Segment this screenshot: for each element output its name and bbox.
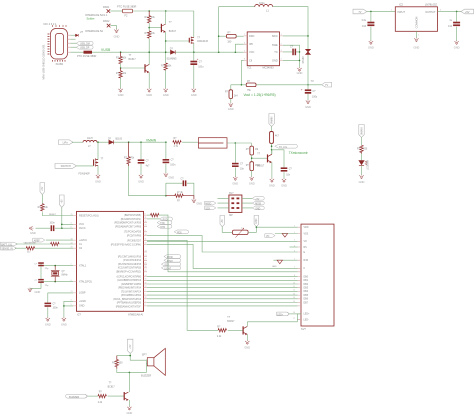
junction R8 [128,141,130,143]
resistor R4 [148,31,151,38]
wire GND pin [283,59,300,61]
svg-text:7V: 7V [325,83,328,87]
svg-text:GND: GND [30,231,36,235]
svg-text:+: + [301,87,303,91]
ground [28,288,32,292]
wire VBUS rail from USB to boost [71,51,244,53]
wire R7 to IC [236,35,244,37]
wire to T4 base [252,157,268,159]
collector wire up to speaker [128,372,130,392]
resistor horizontal on rail [173,141,181,144]
svg-text:31: 31 [145,225,147,227]
resistor box vertical [270,132,274,144]
100n cap at VMAIN [165,141,167,143]
svg-text:INTERFACE 5A: INTERFACE 5A [85,29,103,33]
fuse F2 box [123,9,133,13]
ground [192,88,196,92]
svg-text:(T1/U/VINT/UAPC4: (T1/U/VINT/UAPC4 [121,290,142,293]
ground [96,174,100,178]
svg-text:23: 23 [145,255,147,257]
junction 7V [307,84,309,86]
svg-text:26: 26 [145,266,147,268]
wire to pullup [41,195,43,204]
svg-text:11: 11 [145,217,147,219]
tag row 267.9 [161,266,180,270]
resistor R8 vertical [127,142,130,166]
svg-text:GND: GND [35,290,41,294]
svg-text:X10B2: X10B2 [56,63,64,66]
ground [139,174,143,178]
junction [165,10,167,12]
ground [270,178,274,182]
svg-text:DRC: DRC [249,34,255,38]
svg-text:RXD: RXD [163,219,168,221]
junction rail VCC [235,51,237,53]
7V net tag [322,82,332,87]
svg-text:+AVCC: +AVCC [79,239,87,242]
svg-text:PTC FUSE 380R: PTC FUSE 380R [77,54,97,58]
svg-text:+5V: +5V [42,186,44,191]
svg-text:SV?: SV? [229,193,234,195]
ground [306,100,310,104]
svg-text:GND: GND [414,46,420,50]
svg-text:s: s [241,228,242,230]
wire tube to divider [227,143,251,146]
resistor R7 box [226,34,236,38]
10n cap [234,143,236,177]
connector pin numbers [293,226,295,321]
wire pot right [248,227,256,233]
svg-text:S1040M5: S1040M5 [167,58,178,60]
svg-text:GND: GND [61,322,67,326]
svg-text:GND: GND [269,183,275,187]
wire row 235.6 to E pin [147,236,298,252]
net label USB_D- [77,42,94,46]
svg-text:GND: GND [45,322,51,326]
svg-text:3.3u: 3.3u [361,20,366,22]
+5V tag vertical [128,339,133,353]
junction divider [251,155,253,162]
svg-text:(PDDMDM/PCINT UKP26: (PDDMDM/PCINT UKP26 [114,223,142,225]
svg-text:CII: CII [249,58,253,62]
MCU box [77,211,144,311]
resistor 27.4k [166,194,194,199]
junction VUSB at R1 [120,51,122,53]
svg-text:GND: GND [127,411,133,415]
svg-text:(PPTBAMA/UU/SEPD6: (PPTBAMA/UU/SEPD6 [117,302,142,305]
svg-text:30: 30 [145,221,147,223]
speaker SP1 [147,348,165,375]
BUZZER tag [66,394,89,398]
mosfet drain/source wires [97,142,99,174]
bottom row wire [117,364,147,373]
svg-text:BC817: BC817 [108,386,116,388]
wire to resistor [361,137,363,145]
wire VUSB from USB pin [71,46,77,48]
cap 22p lower + gnd chain [40,266,42,279]
svg-text:BC817: BC817 [169,31,177,33]
svg-text:(ICP/CLKO/PCINT/PB0: (ICP/CLKO/PCINT/PB0 [117,277,142,279]
resistor [360,145,363,153]
svg-text:IC?: IC? [77,313,82,316]
wire diode to 7V node [307,55,309,85]
wire + resistor row 244 [16,243,73,245]
svg-text:BATT_LVL: BATT_LVL [1,243,13,246]
junction rail x165.7 [165,51,167,53]
svg-text:SCK: SCK [205,208,210,210]
svg-text:AVCC: AVCC [79,227,86,230]
junction [148,10,150,12]
svg-text:LED+: LED+ [304,314,311,316]
ground [62,317,66,321]
svg-text:XCC/UMT/CINT/AP1B: XCC/UMT/CINT/AP1B [118,267,142,270]
row1 resistor to long vertical [147,214,151,216]
svg-text:100u: 100u [312,96,318,98]
cap C4 [140,142,142,174]
svg-text:27: 27 [145,270,147,272]
svg-text:BC817: BC817 [227,321,235,323]
wire to diode [97,141,166,143]
svg-text:DB1: DB1 [304,280,309,282]
svg-text:MC34063: MC34063 [263,66,275,70]
svg-text:GND: GND [168,175,174,179]
pad X1 [107,9,111,13]
sensor tube [198,138,227,148]
svg-text:4: 4 [294,245,295,247]
wire CII to feedback [241,60,243,84]
svg-text:LIGHT: LIGHT [164,268,171,270]
earth triangle 2 row [274,259,298,261]
svg-text:(PBSDAMA/CINT MT/X*: (PBSDAMA/CINT MT/X* [116,305,141,308]
svg-text:1: 1 [145,290,146,292]
svg-text:GND: GND [228,107,234,111]
ground [192,199,196,203]
data bus rows [147,277,298,306]
svg-text:TXmicrocontr: TXmicrocontr [289,151,309,155]
earth triangle 1 [282,234,287,238]
LED+ tag [277,312,290,316]
svg-text:SCK: SCK [164,265,169,267]
IC2 78L05 box [395,7,437,32]
svg-text:OUTPUT: OUTPUT [425,11,436,14]
cap CT [292,49,294,56]
tag row 222.6 [157,221,172,225]
svg-text:N/C 4 3 2 1: N/C 4 3 2 1 [44,22,57,26]
wire to label row 2 [71,42,77,44]
svg-text:Vout = 1.25(1+R6/R5): Vout = 1.25(1+R6/R5) [244,93,276,97]
wire SWE to gnd bus [283,45,300,67]
svg-text:TC: TC [274,50,278,54]
connector pin stubs [298,227,302,320]
svg-text:11: 11 [145,239,147,241]
svg-text:15: 15 [145,279,147,281]
svg-text:SWITCH: SWITCH [61,164,71,168]
diode D1 on VBUS rail [171,50,176,54]
connector pin labels [304,227,311,322]
wire pad2 to gnd [110,26,116,30]
svg-text:GND: GND [244,345,250,349]
svg-text:(POCM/BKU/UPD4: (POCM/BKU/UPD4 [121,295,142,297]
long tag row 244 [0,242,17,246]
svg-text:2: 2 [294,226,295,228]
svg-text:+5V: +5V [255,199,260,201]
svg-text:GND: GND [281,183,287,187]
svg-text:12: 12 [145,243,147,245]
inductor L1 [255,4,273,6]
svg-text:5: 5 [294,259,295,261]
svg-text:MOSI: MOSI [255,204,261,206]
input cap [370,11,372,40]
GND tag vertical right [254,216,259,227]
svg-text:17: 17 [145,286,147,288]
svg-text:TX_LVL: TX_LVL [279,147,288,149]
svg-text:LED+: LED+ [277,314,283,316]
tag row 226.4 [157,225,172,229]
wire IPK [235,44,243,52]
C13 branch [272,150,284,179]
+5V tag for reset pullup [40,183,45,195]
ISP right wires [242,198,252,208]
wire switch to gate [77,165,94,167]
pot wiper arrow [236,228,244,238]
MCU inside left labels [79,214,99,307]
wire row 240.3 to buzzer drive [147,240,218,330]
wire VCC / AVCC [62,207,73,228]
junction rail x149 [148,51,150,53]
ground [369,40,373,44]
wire drain to rail [193,43,195,52]
svg-text:(GCC/BBPCINT/8/PC6: (GCC/BBPCINT/8/PC6 [117,280,142,282]
svg-text:GND: GND [255,208,260,210]
svg-text:GND: GND [454,46,460,50]
svg-text:PAD2: PAD2 [103,19,110,23]
T4 emitter to gnd [271,162,273,178]
svg-text:DMG3415: DMG3415 [197,41,208,43]
transistor backlight [243,326,247,334]
mosfet T5 FDN340 [94,158,98,166]
svg-text:(PCD/T/AP06: (PCD/T/AP06 [127,235,142,238]
svg-text:VCC: VCC [79,223,84,226]
svg-text:MINI-USB-SHIELD-32005-201: MINI-USB-SHIELD-32005-201 [42,44,46,80]
wire LED to gnd [361,166,363,175]
svg-text:1: 1 [294,232,295,234]
svg-text:GND: GND [146,93,152,97]
svg-text:VMAIN: VMAIN [271,116,274,124]
svg-text:17: 17 [293,318,295,320]
svg-text:VO: VO [304,241,308,243]
wire + resistor row 248 [15,247,73,249]
svg-text:GND: GND [272,58,278,62]
svg-text:LiPo: LiPo [63,141,69,145]
svg-text:C11: C11 [448,26,453,28]
svg-text:1: 1 [145,301,146,303]
svg-text:+5V: +5V [222,219,224,224]
svg-text:9: 9 [145,230,146,232]
svg-text:GND: GND [138,179,144,183]
ground [164,173,168,177]
tag row 264.2 [161,262,180,266]
svg-text:GND: GND [359,180,365,184]
svg-text:9: 9 [145,213,146,215]
ground [46,317,50,321]
common pin to gnd [415,31,417,38]
output cap [456,11,458,40]
svg-text:GND: GND [191,93,197,97]
ISP pads [231,198,239,209]
ground [245,340,249,344]
svg-text:FDN340P: FDN340P [79,171,90,175]
svg-text:BC817: BC817 [129,59,137,61]
wire tag down [117,354,147,364]
svg-text:(P1/OSF/WO1/16/P15: (P1/OSF/WO1/16/P15 [118,264,142,266]
svg-text:330: 330 [363,148,368,150]
USB connector X1 body [51,29,68,60]
collector wire up [246,322,248,327]
svg-text:GND: GND [196,201,202,205]
svg-text:C10: C10 [362,26,367,28]
wire tag to connector + down to collector [289,313,301,315]
svg-text:+5V: +5V [62,199,64,204]
output wire [438,10,462,12]
svg-text:ISP: ISP [229,215,233,217]
transistor T2 BC817 [145,64,149,72]
T4 collector wire [271,150,273,154]
svg-text:COMMON: COMMON [416,16,419,28]
damping resistor [115,356,118,369]
ISP left tag SCK [205,206,216,210]
svg-text:VDD: VDD [304,227,309,229]
inductor L2 [83,140,97,142]
speaker top terminal wire [146,359,147,361]
ground [147,88,151,92]
gnd pins rows 301/305.9 [64,301,73,317]
svg-text:LGBP: LGBP [79,292,86,295]
svg-text:10: 10 [145,234,147,236]
svg-text:8MHz: 8MHz [62,274,69,276]
svg-text:Solder: Solder [87,17,95,21]
svg-text:DB3: DB3 [304,288,309,290]
svg-text:INT0: INT0 [160,227,166,229]
ground [414,38,418,42]
wire gate T1 from T3 emitter [166,40,190,42]
wire tag to resistor [88,395,98,397]
svg-text:VO: VO [266,236,270,238]
ground [127,406,131,410]
wire resistor to tube [182,141,198,143]
svg-text:GND: GND [297,71,303,75]
resistor R3 [148,11,151,23]
LED [359,161,364,166]
emitter to gnd [246,334,248,340]
wire to junctions [271,143,273,154]
ADC6 tag [33,238,45,242]
wire T3 collector [165,11,167,24]
ground [282,178,286,182]
long tag row 248 [0,246,16,250]
svg-text:R/W: R/W [304,260,309,262]
MCU inside right labels [111,215,142,308]
ISP left wires [218,198,229,208]
junction DRC tap [218,35,220,37]
svg-text:(PDDABAI/PCINT 24P06: (PDDABAI/PCINT 24P06 [115,225,142,228]
+5V tag [461,9,474,14]
ground [164,88,168,92]
junction 10n cap [235,142,237,144]
svg-text:BUZZER: BUZZER [141,373,151,377]
emitter to gnd [128,400,130,406]
wire VO row to connector [275,233,298,235]
TX net tag [275,144,298,148]
ground [114,29,118,33]
tag row 260.3 [164,259,181,263]
svg-text:IC1: IC1 [248,66,253,70]
wire CT [283,51,300,53]
mosfet T1 DMG3415 [189,37,194,44]
resistor R6 box [246,83,256,87]
PTC fuse F1 (filled) [84,51,93,54]
wire row 244.4 to K row [147,244,298,268]
row 247 stub wire [290,246,298,248]
wire fuse to mosfet source node [133,11,194,38]
svg-text:(BKI/MOP+/CCA/AP1D): (BKI/MOP+/CCA/AP1D) [116,270,141,273]
transistor T3 BC817 [161,24,165,32]
svg-text:DB0: DB0 [304,276,309,278]
svg-text:IPK: IPK [249,42,253,46]
LiPo tag [59,140,73,145]
wire SWC to switch node [283,35,308,37]
junction mosfet switch [97,141,99,143]
wire D+ [71,34,76,36]
wire reset to MCU [42,212,73,215]
svg-text:VMAIN: VMAIN [146,138,157,142]
svg-text:7V: 7V [311,79,314,83]
polarized cap 100u [190,61,197,63]
wire +5V to connector pin 2 [256,226,258,228]
cap in RC [183,180,185,186]
svg-text:32: 32 [145,297,147,299]
ground left arrow [29,226,33,230]
svg-text:GND: GND [118,93,124,97]
svg-text:100u: 100u [259,1,265,5]
MCU left pin stubs [73,216,77,306]
svg-text:14: 14 [145,275,147,277]
svg-text:SWC: SWC [272,34,278,38]
svg-text:7V: 7V [358,10,361,14]
svg-text:VCC: VCC [249,50,255,54]
svg-text:LED-: LED- [304,320,310,322]
ground [118,88,122,92]
divider R bottom box [250,162,254,171]
svg-text:(AIN/MPINT1/4P00: (AIN/MPINT1/4P00 [121,283,142,286]
wire tag to IC2 [367,10,396,12]
IC1 pin numbers [244,34,283,61]
svg-text:(XCK/L_BPA/PCINT/UPC6: (XCK/L_BPA/PCINT/UPC6 [113,298,141,301]
svg-text:25: 25 [145,263,147,265]
svg-text:RESET(PCI./A16): RESET(PCI./A16) [79,214,99,217]
ESD diode on D+ [76,34,79,37]
svg-text:(B6/PCINT3/FB): (B6/PCINT3/FB) [124,215,141,217]
junction divider mid [148,27,150,29]
net label USB_D+ [77,46,94,50]
tag row 256.5 [164,255,181,259]
VO tag [265,234,275,238]
svg-text:GND: GND [256,218,258,223]
MCU right pin stubs [144,215,148,306]
svg-text:IC2: IC2 [399,3,404,7]
ground [454,40,458,44]
7V input tag [353,9,367,14]
ground [359,175,363,179]
